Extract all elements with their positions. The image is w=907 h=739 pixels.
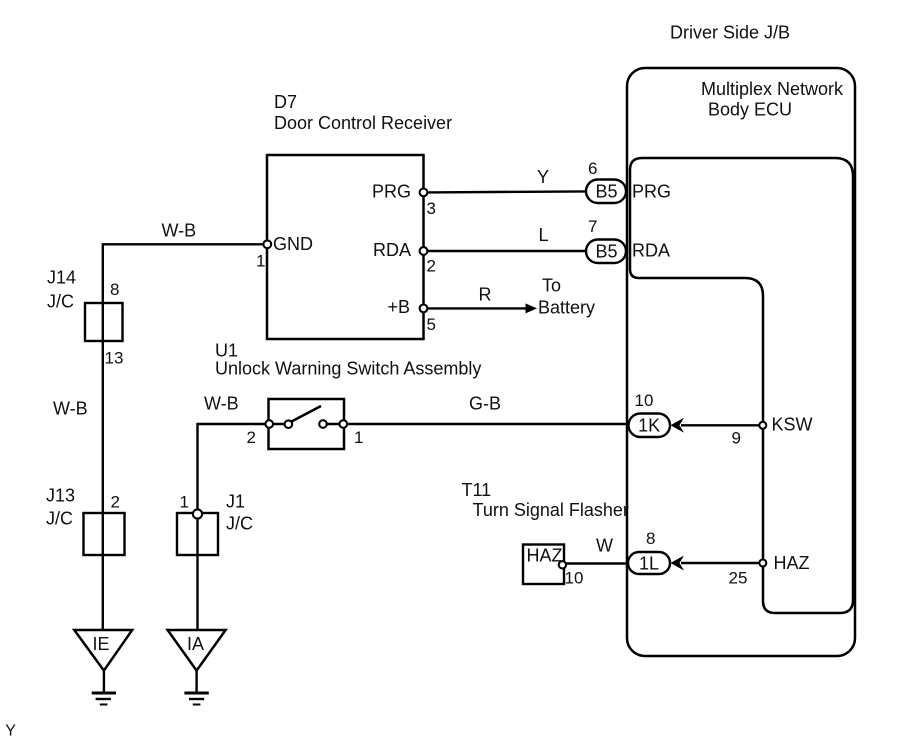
svg-text:RDA: RDA <box>373 240 411 260</box>
svg-text:Driver Side J/B: Driver Side J/B <box>670 23 790 43</box>
svg-text:W-B: W-B <box>204 394 239 414</box>
svg-text:Turn Signal Flasher: Turn Signal Flasher <box>473 500 629 520</box>
svg-text:7: 7 <box>588 217 597 236</box>
svg-text:10: 10 <box>565 569 584 588</box>
svg-text:D7: D7 <box>274 92 297 112</box>
svg-text:Multiplex Network: Multiplex Network <box>701 79 844 99</box>
svg-text:Y: Y <box>5 723 16 739</box>
svg-text:W: W <box>596 536 613 556</box>
svg-text:PRG: PRG <box>632 182 671 202</box>
svg-text:B5: B5 <box>595 182 617 202</box>
svg-text:9: 9 <box>732 429 741 448</box>
svg-text:J/C: J/C <box>46 509 73 529</box>
svg-text:J/C: J/C <box>47 292 74 312</box>
svg-text:HAZ: HAZ <box>774 553 810 573</box>
svg-text:Battery: Battery <box>538 298 595 318</box>
svg-text:13: 13 <box>105 349 124 368</box>
svg-text:8: 8 <box>110 280 119 299</box>
svg-text:KSW: KSW <box>772 415 813 435</box>
svg-text:6: 6 <box>588 159 597 178</box>
svg-text:L: L <box>539 225 549 245</box>
svg-text:+B: +B <box>387 297 410 317</box>
svg-text:T11: T11 <box>462 480 492 500</box>
svg-text:RDA: RDA <box>632 241 670 261</box>
svg-text:Unlock Warning Switch Assembly: Unlock Warning Switch Assembly <box>215 359 481 379</box>
svg-text:2: 2 <box>427 257 436 276</box>
svg-text:8: 8 <box>646 529 655 548</box>
svg-text:PRG: PRG <box>372 182 411 202</box>
svg-text:G-B: G-B <box>469 394 501 414</box>
svg-text:2: 2 <box>247 428 256 447</box>
svg-text:U1: U1 <box>215 341 238 361</box>
svg-text:2: 2 <box>111 493 120 512</box>
svg-text:10: 10 <box>635 391 654 410</box>
svg-text:R: R <box>479 285 492 305</box>
svg-text:1: 1 <box>256 252 265 271</box>
svg-text:3: 3 <box>427 199 436 218</box>
svg-text:1K: 1K <box>638 416 660 436</box>
svg-text:W-B: W-B <box>53 399 88 419</box>
svg-text:1L: 1L <box>639 554 659 574</box>
svg-text:25: 25 <box>729 569 748 588</box>
svg-text:IE: IE <box>93 634 110 654</box>
svg-text:J14: J14 <box>47 268 76 288</box>
svg-text:IA: IA <box>187 634 204 654</box>
svg-text:Door Control Receiver: Door Control Receiver <box>274 113 452 133</box>
svg-text:1: 1 <box>180 493 189 512</box>
svg-text:Y: Y <box>537 167 549 187</box>
svg-text:HAZ: HAZ <box>527 546 563 566</box>
svg-text:1: 1 <box>354 428 363 447</box>
svg-text:J13: J13 <box>46 486 75 506</box>
svg-text:W-B: W-B <box>162 221 197 241</box>
svg-text:5: 5 <box>427 315 436 334</box>
svg-text:J1: J1 <box>226 492 245 512</box>
svg-text:GND: GND <box>273 234 313 254</box>
svg-text:To: To <box>542 276 561 296</box>
svg-text:Body ECU: Body ECU <box>708 100 792 120</box>
svg-text:J/C: J/C <box>226 514 253 534</box>
svg-text:B5: B5 <box>595 242 617 262</box>
